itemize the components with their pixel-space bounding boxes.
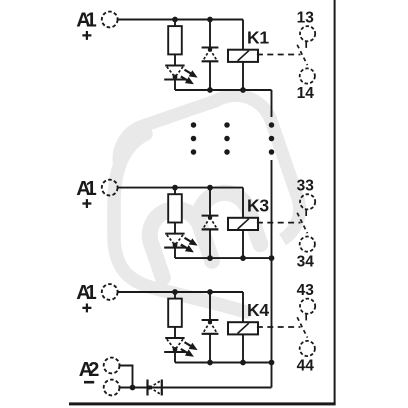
relay coil K3 (228, 195, 269, 230)
wire: resistor to LED (174, 54, 176, 65)
wire: resistor to LED (174, 327, 176, 338)
terminal A1 (channel 2) (76, 178, 117, 208)
wire: LED to bottom wire (174, 80, 176, 91)
watermark logo (light gray, rotated rounded square) (110, 85, 309, 312)
wire: relay coil K3 to bottom wire (242, 230, 244, 258)
wire: top wire to resistor (174, 20, 176, 27)
svg-text:K3: K3 (247, 195, 269, 215)
wire: dashed mechanical link K4 to contact (257, 326, 301, 328)
node: relay junction on bottom wire (240, 87, 246, 93)
ellipsis dots column 3 (on rail) (269, 122, 275, 128)
wire: dashed mechanical link K1 to contact (257, 54, 301, 56)
resistor (series resistor, channel 3) (168, 299, 182, 327)
wire: LED to bottom wire (174, 352, 176, 363)
diode (reverse polarity protection at A2) (148, 380, 162, 396)
svg-text:34: 34 (297, 253, 315, 270)
contact blade (NO contact of K4) (297, 317, 307, 337)
wire: bottom return wire of channel 2 (175, 257, 272, 259)
svg-text:43: 43 (297, 282, 315, 299)
diode (suppressor diode across coil, channel 2) (202, 215, 219, 229)
LED (status indicator, channel 1) (164, 66, 199, 88)
wire: suppressor diode to bottom wire (209, 334, 211, 363)
wire: suppressor diode to bottom wire (209, 229, 211, 258)
wire: fixed contact stub (305, 209, 307, 216)
LED (status indicator, channel 3) (164, 338, 199, 360)
svg-text:K1: K1 (247, 27, 269, 47)
relay coil K1 (228, 27, 269, 62)
wire: bottom return wire of channel 1 (175, 89, 272, 91)
wire: A2 upper terminal jumper (120, 366, 133, 388)
wire: top wire corner down to relay coil K3 (242, 188, 244, 218)
node: junction with common rail (269, 360, 275, 366)
wire: LED to bottom wire (174, 248, 176, 259)
ellipsis dots column 2 (224, 122, 230, 128)
wire: top wire to resistor (174, 292, 176, 299)
svg-text:44: 44 (297, 358, 315, 375)
wire: A1 top rail of channel 3 (118, 291, 243, 293)
wire: top wire to suppressor diode (209, 292, 211, 320)
frame: bottom border bar (69, 402, 336, 405)
terminal A2 (79, 358, 120, 396)
node: junction of diode branch on top wire (207, 185, 213, 191)
diode (suppressor diode across coil, channel 1) (202, 47, 219, 61)
node: junction of diode branch on top wire (207, 289, 213, 295)
LED (status indicator, channel 2) (164, 234, 199, 256)
wire: resistor to LED (174, 223, 176, 234)
svg-text:K4: K4 (247, 300, 269, 320)
contact terminal circle 43 (300, 299, 315, 314)
diode (suppressor diode across coil, channel 3) (202, 320, 219, 334)
contact blade (NO contact of K3) (297, 213, 307, 233)
contact terminal circle 44 (300, 341, 315, 356)
wire: A1 top rail of channel 1 (118, 19, 243, 21)
wire: relay coil K4 to bottom wire (242, 334, 244, 362)
node: junction of diode branch on top wire (207, 17, 213, 23)
node: junction of resistor branch on top wire (172, 289, 178, 295)
wire: common rail resuming below ellipsis (271, 160, 273, 388)
contact terminal circle 13 (300, 26, 315, 41)
wire: top wire to suppressor diode (209, 188, 211, 216)
wire: top wire corner down to relay coil K1 (242, 20, 244, 50)
wire: bottom return wire of channel 3 (175, 362, 272, 364)
node: A2 jumper junction (130, 385, 136, 391)
node: junction of resistor branch on top wire (172, 185, 178, 191)
contact blade (NO contact of K1) (297, 45, 307, 65)
node: LED/diode junction on bottom wire (207, 255, 213, 261)
wire: A1 top rail of channel 2 (118, 187, 243, 189)
wire: A2 lower terminal to diode (120, 387, 162, 389)
wire: relay coil K1 to bottom wire (242, 62, 244, 90)
relay coil K4 (228, 300, 269, 335)
wire: fixed contact stub (305, 314, 307, 321)
resistor (series resistor, channel 2) (168, 194, 182, 222)
wire: top wire corner down to relay coil K4 (242, 292, 244, 322)
ellipsis dots column 1 (repeated channels) (191, 122, 197, 128)
svg-text:13: 13 (297, 9, 315, 26)
contact terminal circle 34 (300, 237, 315, 252)
svg-text:14: 14 (297, 85, 315, 102)
wire: common rail from channel 1 bottom corner (271, 90, 273, 117)
contact terminal circle 33 (300, 194, 315, 209)
node: relay junction on bottom wire (240, 360, 246, 366)
wire: top wire to resistor (174, 188, 176, 195)
resistor (series resistor, channel 1) (168, 26, 182, 54)
wire: suppressor diode to bottom wire (209, 61, 211, 90)
wire: fixed contact stub (305, 41, 307, 48)
node: relay junction on bottom wire (240, 255, 246, 261)
terminal A1 (channel 1) (76, 10, 117, 40)
frame: right border line (334, 0, 336, 404)
wire: dashed mechanical link K3 to contact (257, 222, 301, 224)
svg-text:33: 33 (297, 177, 315, 194)
node: junction with common rail (269, 255, 275, 261)
wire: top wire to suppressor diode (209, 20, 211, 48)
node: junction of resistor branch on top wire (172, 17, 178, 23)
wire: rail bottom run to A2 diode (162, 387, 272, 389)
node: LED/diode junction on bottom wire (207, 360, 213, 366)
terminal A1 (channel 3) (76, 282, 117, 312)
node: LED/diode junction on bottom wire (207, 87, 213, 93)
contact terminal circle 14 (300, 68, 315, 83)
